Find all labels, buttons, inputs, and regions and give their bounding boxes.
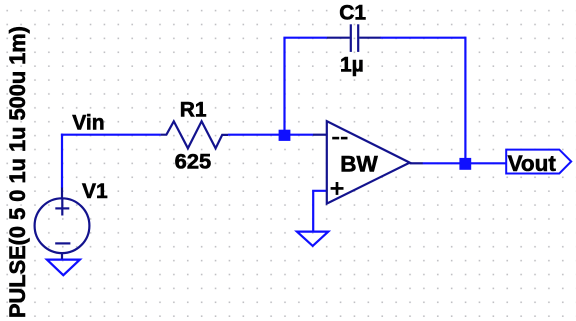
wire Vin vertical down to V1	[61, 134, 63, 188]
svg-text:Vin: Vin	[72, 111, 104, 134]
wire R1 right to node A	[228, 134, 313, 136]
wire feedback top right segment	[380, 37, 465, 39]
ground under V1	[47, 260, 80, 276]
svg-text:Vout: Vout	[508, 151, 557, 176]
op-amp minus marker	[332, 137, 347, 140]
op-amp minus input lead	[313, 134, 327, 136]
resistor R1	[161, 121, 228, 148]
capacitor C1	[327, 24, 380, 52]
op-amp U1 triangle	[327, 121, 410, 203]
svg-text:1µ: 1µ	[340, 53, 364, 76]
node A junction	[279, 130, 291, 141]
wire feedback vertical left	[283, 38, 285, 136]
wire feedback vertical right down to node B	[464, 37, 466, 164]
wire Vin horizontal	[61, 134, 161, 136]
svg-text:PULSE(0 5 0 1u 1u 500u 1m): PULSE(0 5 0 1u 1u 500u 1m)	[5, 26, 30, 318]
voltage source V1	[35, 188, 90, 259]
wire feedback top left segment	[283, 37, 327, 39]
node B junction	[459, 158, 471, 170]
svg-text:V1: V1	[82, 180, 108, 203]
svg-text:C1: C1	[339, 2, 366, 25]
wire opamp output to node B	[423, 162, 466, 164]
wire opamp plus input to ground	[313, 191, 327, 232]
op-amp plus marker	[331, 182, 344, 195]
wire node B to Vout port	[465, 162, 507, 164]
svg-text:625: 625	[175, 150, 212, 173]
op-amp output lead	[410, 162, 423, 164]
ground under opamp plus input	[297, 232, 328, 246]
port flag Vout	[506, 150, 571, 174]
svg-text:BW: BW	[340, 152, 378, 177]
svg-text:R1: R1	[180, 99, 207, 122]
